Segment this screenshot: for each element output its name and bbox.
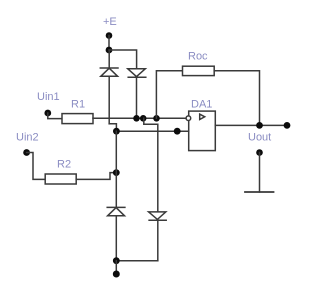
svg-text:+E: +E [103,16,117,28]
op-amp DA1 [189,111,216,151]
svg-text:Uin1: Uin1 [37,91,60,103]
wire +E terminal to junction [108,36,110,51]
junction bottom node [113,257,120,264]
inverting input bubble [186,116,191,121]
wire bottom rail [116,260,158,262]
resistor R2 [45,174,76,184]
ground [245,191,274,193]
wire R2 to left vertical [76,173,116,180]
junction noninverting node [113,128,120,135]
terminal Uin2 [23,149,30,156]
diode VD3 bottom-left [107,207,125,215]
wire bottom node to terminal [115,261,117,271]
terminal bottom [113,271,120,278]
svg-text:Uout: Uout [248,132,271,144]
junction step wire on inverting line [140,115,147,122]
junction Roc on inverting line [153,115,160,122]
terminal Uout [284,122,291,129]
diode VD1 top-left [100,68,118,76]
terminal ground top [256,149,263,156]
junction on noninverting line [174,128,181,135]
wire noninverting input line [116,130,188,132]
svg-text:Roc: Roc [188,51,208,63]
terminal Uin1 [44,110,51,117]
wire VD4 cathode down [157,220,159,261]
wire Uin2 to R2 [27,153,46,180]
junction output node [256,122,263,129]
wire VD3 anode down [115,216,117,261]
wire Uin1 to R1 [48,113,62,119]
junction VD2 on inverting line [133,115,140,122]
wire op-amp output [215,124,287,126]
junction +E branch [106,47,113,54]
wire VD2 cathode down [136,77,138,118]
wire +E branch to right diode [109,50,137,69]
wire inverting input line [93,117,186,119]
resistor R1 [62,114,93,124]
wire noninverting node down [115,131,117,207]
diode VD4 bottom-right [149,212,167,220]
svg-text:DA1: DA1 [191,99,212,111]
wire Roc right to output node [214,71,259,126]
wire ground [259,153,261,193]
wire jog to noninverting node [109,124,116,131]
svg-text:Uin2: Uin2 [16,132,39,144]
resistor Roc [183,66,215,75]
svg-text:R1: R1 [71,99,85,111]
wire +E junction down to VD1 [108,50,110,68]
wire step down to VD4 [144,118,158,211]
diode VD2 top-right [128,69,146,77]
junction R2 node [113,169,120,176]
terminal +E [106,32,113,39]
wire VD1 anode down [108,76,110,124]
wire Roc left to inverting node [156,71,182,119]
svg-text:R2: R2 [57,159,71,171]
